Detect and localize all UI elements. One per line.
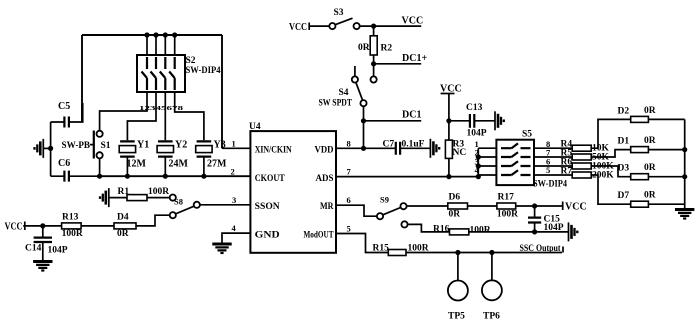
svg-text:104P: 104P bbox=[467, 129, 487, 139]
svg-text:5: 5 bbox=[347, 223, 351, 233]
ground C13 bbox=[495, 111, 504, 130]
ground U4 pin4 bbox=[212, 244, 231, 253]
capacitor C6 bbox=[51, 158, 100, 182]
wire R13 to D4 bbox=[81, 225, 114, 227]
svg-text:D3: D3 bbox=[618, 164, 630, 174]
svg-text:R2: R2 bbox=[381, 44, 393, 54]
wire C5-C6 vertical bbox=[50, 122, 52, 176]
resistor R2 0R bbox=[358, 26, 392, 64]
svg-text:D1: D1 bbox=[618, 137, 630, 147]
svg-text:D6: D6 bbox=[449, 193, 461, 203]
svg-text:R17: R17 bbox=[498, 193, 515, 203]
svg-text:12M: 12M bbox=[127, 159, 147, 170]
svg-text:C13: C13 bbox=[466, 103, 483, 113]
resistor D2 0R bbox=[618, 106, 685, 123]
wire S8 common to SSON pin3 bbox=[200, 204, 251, 206]
wire crystal bus to CKOUT bbox=[100, 175, 251, 177]
resistor R1 100R bbox=[118, 187, 170, 201]
svg-text:ADS: ADS bbox=[316, 174, 334, 184]
resistor R5 50K bbox=[534, 149, 610, 163]
svg-text:C6: C6 bbox=[58, 158, 70, 169]
svg-text:C5: C5 bbox=[58, 101, 70, 112]
svg-text:MR: MR bbox=[320, 202, 334, 212]
wire MR pin6 bbox=[336, 205, 377, 216]
wire S9 to D6 bbox=[407, 205, 448, 207]
svg-text:8: 8 bbox=[347, 139, 351, 149]
svg-text:SW-DIP4: SW-DIP4 bbox=[186, 66, 221, 76]
power VCC right bbox=[440, 84, 462, 95]
node VDD/S4 bbox=[361, 146, 366, 151]
svg-text:S2: S2 bbox=[186, 56, 196, 66]
switch S5 SW-DIP4 bbox=[496, 140, 534, 185]
svg-text:CKOUT: CKOUT bbox=[255, 174, 286, 184]
svg-text:D2: D2 bbox=[618, 106, 630, 116]
resistor R13 100R bbox=[62, 213, 83, 240]
wire S2 sw2 to Y1 bbox=[127, 92, 156, 140]
svg-text:DC1+: DC1+ bbox=[402, 53, 427, 64]
node right bus D1 bbox=[682, 147, 687, 152]
wire DC1+ rail bbox=[374, 63, 422, 65]
wire VCC to S3 bbox=[309, 25, 330, 27]
node S5 bus junctions bbox=[476, 154, 481, 179]
svg-text:100R: 100R bbox=[148, 187, 169, 197]
test point TP5 bbox=[448, 253, 468, 322]
wire S3 to VCC rail bbox=[360, 25, 422, 27]
svg-text:ModOUT: ModOUT bbox=[304, 230, 334, 240]
resistor D1 0R bbox=[618, 136, 685, 153]
svg-text:2: 2 bbox=[231, 167, 235, 177]
svg-text:0R: 0R bbox=[644, 136, 656, 146]
svg-text:R13: R13 bbox=[62, 213, 79, 223]
resistor R6 100K bbox=[534, 158, 614, 172]
svg-text:0.1uF: 0.1uF bbox=[402, 140, 425, 150]
svg-text:SSON: SSON bbox=[255, 202, 280, 212]
wire S5 left bus bbox=[478, 148, 496, 176]
svg-text:S4: S4 bbox=[339, 88, 349, 98]
wire R5 to D1 bbox=[591, 150, 631, 157]
wire left loop vertical bbox=[81, 35, 83, 122]
wire R6 to D3 bbox=[591, 166, 631, 177]
resistor R16 100R bbox=[433, 225, 491, 236]
svg-text:0R: 0R bbox=[117, 229, 129, 239]
svg-text:VCC: VCC bbox=[565, 202, 587, 213]
svg-text:0R: 0R bbox=[449, 210, 461, 220]
node DC1+ bbox=[371, 61, 376, 66]
svg-text:S3: S3 bbox=[334, 8, 344, 18]
svg-text:100R: 100R bbox=[62, 229, 83, 239]
wire S2 sw4 to Y3 bbox=[175, 92, 204, 140]
svg-text:VCC: VCC bbox=[5, 222, 23, 233]
switch S9 SPDT bbox=[377, 195, 408, 228]
wire S2 sw3 to Y2 bbox=[164, 92, 166, 140]
wire R7 to D7 bbox=[591, 175, 631, 204]
svg-text:U4: U4 bbox=[249, 122, 261, 132]
wire S2 sw1 to S1 bbox=[100, 92, 147, 131]
wire C5 top link bbox=[81, 103, 83, 122]
wire DC1 rail bbox=[364, 120, 422, 122]
node C5/C6/ground bbox=[48, 146, 53, 151]
svg-text:SSC Output: SSC Output bbox=[520, 244, 562, 254]
node R17/C15 bbox=[532, 203, 537, 208]
node bus junctions bbox=[97, 174, 206, 179]
svg-text:Y1: Y1 bbox=[137, 140, 149, 151]
crystal Y1 12M bbox=[119, 140, 149, 177]
switch S1 SW-PB bbox=[90, 131, 103, 177]
node VCC/C14 bbox=[40, 223, 45, 228]
svg-text:0R: 0R bbox=[644, 106, 656, 116]
wire VCC down to R3 bbox=[448, 94, 450, 141]
wire SSC output line bbox=[406, 252, 562, 254]
svg-text:0R: 0R bbox=[358, 43, 370, 53]
svg-text:1: 1 bbox=[232, 139, 236, 149]
node R3/ADS bbox=[446, 174, 451, 179]
svg-text:VCC: VCC bbox=[289, 22, 307, 33]
svg-text:S1: S1 bbox=[101, 141, 111, 151]
svg-text:DC1: DC1 bbox=[402, 110, 421, 121]
ground R16/C15 bbox=[569, 222, 578, 241]
svg-text:VDD: VDD bbox=[315, 146, 334, 156]
svg-text:S5: S5 bbox=[522, 130, 532, 140]
resistor R4 10K bbox=[534, 140, 610, 154]
svg-text:0R: 0R bbox=[644, 191, 656, 201]
svg-text:3: 3 bbox=[232, 195, 236, 205]
wire D4 to S8 throw bbox=[136, 215, 170, 226]
wire VDD pin8 bbox=[336, 147, 395, 149]
svg-text:GND: GND bbox=[255, 230, 280, 240]
svg-text:R16: R16 bbox=[433, 225, 450, 235]
crystal Y2 24M bbox=[157, 140, 188, 177]
svg-text:S9: S9 bbox=[380, 195, 389, 205]
wire ADS pin7 bbox=[336, 176, 478, 178]
switch S4 SW SPDT bbox=[319, 64, 377, 109]
svg-text:D7: D7 bbox=[618, 191, 630, 201]
wire ModOUT pin5 bbox=[336, 234, 388, 253]
node C13 branch bbox=[446, 118, 451, 123]
svg-text:SW-PB: SW-PB bbox=[62, 141, 91, 151]
node R16/C15 bbox=[532, 229, 537, 234]
power VCC left bbox=[5, 222, 25, 233]
svg-text:D4: D4 bbox=[117, 213, 129, 223]
label SSC Output bbox=[520, 244, 564, 254]
crystal Y3 27M bbox=[196, 140, 227, 177]
ground C14 bbox=[33, 262, 52, 271]
ground R1 bbox=[100, 188, 127, 207]
node TP6 bbox=[489, 250, 494, 255]
svg-text:R1: R1 bbox=[118, 187, 130, 197]
switch S8 SPDT bbox=[170, 195, 200, 219]
wire U4 pin4 GND bbox=[222, 233, 250, 244]
switch S2 SW-DIP4 bbox=[137, 55, 185, 92]
resistor D4 0R bbox=[114, 213, 136, 240]
node TP5 bbox=[455, 250, 460, 255]
svg-text:S8: S8 bbox=[174, 197, 183, 207]
svg-text:SW-DIP4: SW-DIP4 bbox=[533, 180, 567, 190]
node right bus D3 bbox=[682, 174, 687, 179]
capacitor C13 104P bbox=[449, 103, 495, 139]
wire S9 throw2 to R16 bbox=[408, 224, 450, 232]
svg-text:104P: 104P bbox=[48, 246, 68, 256]
ground left of C5/C6 bbox=[35, 139, 51, 158]
svg-text:XIN/CKIN: XIN/CKIN bbox=[255, 146, 292, 156]
svg-text:100R: 100R bbox=[470, 226, 491, 236]
wire R17 to VCC bbox=[516, 205, 563, 207]
resistor D6 0R bbox=[448, 193, 468, 220]
svg-text:24M: 24M bbox=[169, 159, 189, 170]
capacitor C5 bbox=[51, 101, 83, 128]
svg-text:6: 6 bbox=[347, 195, 351, 205]
wire R16 to ground bbox=[469, 231, 569, 233]
wire S4 common down bbox=[363, 106, 365, 148]
svg-text:C14: C14 bbox=[25, 244, 42, 254]
wire VCC to R13 bbox=[23, 225, 61, 227]
svg-text:R7: R7 bbox=[561, 167, 573, 177]
svg-text:SW SPDT: SW SPDT bbox=[319, 99, 353, 109]
switch S3 bbox=[329, 8, 359, 29]
wire right loop vertical to U4 pin1 bbox=[221, 35, 223, 148]
wire right bus bbox=[684, 119, 686, 209]
wire S2 top pins bbox=[147, 35, 175, 55]
svg-text:27M: 27M bbox=[207, 159, 227, 170]
svg-text:100R: 100R bbox=[497, 210, 518, 220]
svg-text:VCC: VCC bbox=[402, 16, 424, 27]
resistor D3 0R bbox=[618, 163, 685, 180]
svg-text:NC: NC bbox=[453, 148, 467, 158]
ground C7 bbox=[430, 139, 439, 158]
test point TP6 bbox=[482, 253, 502, 322]
svg-text:TP6: TP6 bbox=[483, 312, 500, 322]
resistor R3 NC bbox=[445, 140, 466, 177]
svg-text:0R: 0R bbox=[644, 163, 656, 173]
node S3/R2 bbox=[371, 24, 376, 29]
capacitor C15 104P bbox=[528, 206, 564, 233]
svg-text:R15: R15 bbox=[373, 244, 390, 254]
wire top bus bbox=[82, 34, 222, 36]
wire U4 pin1 bbox=[222, 147, 250, 149]
capacitor C7 0.1uF bbox=[383, 140, 431, 155]
resistor D7 0R bbox=[618, 191, 685, 208]
op-amp U4 (IC) bbox=[250, 131, 336, 253]
resistor R17 100R bbox=[497, 193, 518, 220]
power VCC right mid bbox=[563, 202, 587, 213]
ground right bus bbox=[675, 210, 694, 219]
svg-text:C7: C7 bbox=[383, 140, 395, 150]
node junctions on top bus bbox=[144, 32, 177, 37]
capacitor C14 104P bbox=[25, 226, 68, 262]
power VCC top left bbox=[289, 22, 309, 33]
wire R4 to D2 bbox=[591, 119, 631, 148]
svg-text:Y2: Y2 bbox=[175, 140, 187, 151]
resistor R7 200K bbox=[534, 167, 614, 181]
resistor R15 100R bbox=[373, 244, 429, 256]
svg-text:TP5: TP5 bbox=[448, 312, 465, 322]
wire D6 to R17 bbox=[468, 205, 497, 207]
node DC1 bbox=[361, 118, 366, 123]
